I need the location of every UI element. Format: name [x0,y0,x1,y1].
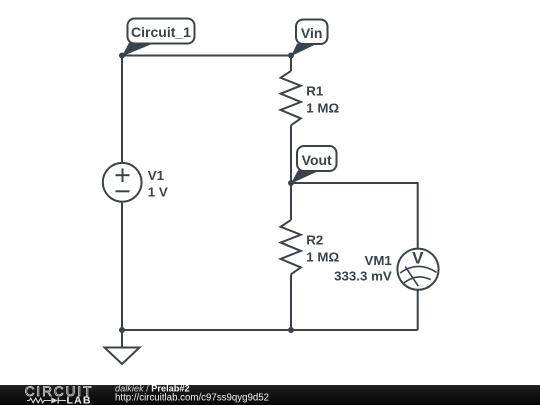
wire VM1 bottom to ground net [417,290,419,330]
svg-text:R2: R2 [306,233,323,248]
net flag box Vin [296,20,328,45]
net flag tail Vin [291,44,317,57]
wire top net Vin from Circuit_1 node to Vin node [122,55,291,57]
resistor R1 zigzag [281,71,301,125]
wire left branch lower (V1 bottom to ground net) [121,203,123,330]
svg-text:1 V: 1 V [148,185,168,200]
svg-text:Circuit_1: Circuit_1 [131,24,191,40]
svg-text:VM1: VM1 [364,253,392,268]
svg-text:V1: V1 [148,168,165,183]
voltage source V1 circle [103,163,142,202]
wire right branch upper (Vin node to R1) [290,56,292,71]
ground symbol stem [121,330,123,348]
svg-text:V: V [412,249,424,268]
net flag box Circuit_1 [128,19,195,44]
wire R1 bottom to Vout node [290,125,292,183]
CircuitLab logo squiggle resistor [27,398,51,403]
net flag tail Circuit_1 [122,43,155,57]
svg-text:Vin: Vin [301,25,323,41]
svg-text:333.3 mV: 333.3 mV [334,269,392,284]
footer bar [0,385,540,405]
svg-text:http://circuitlab.com/c97ss9qy: http://circuitlab.com/c97ss9qyg9d52 [115,392,269,403]
VM1 meter scale lower arc [404,277,431,283]
wire Vout node to R2 top [290,183,292,220]
svg-text:1 MΩ: 1 MΩ [306,100,339,115]
net flag box Vout [297,146,337,171]
junction node dot bottom left [119,327,125,333]
wire Vout horizontal to voltmeter branch [291,183,418,248]
svg-text:1 MΩ: 1 MΩ [306,249,339,264]
wire bottom ground net [122,329,418,331]
junction node dot Circuit_1 [119,53,125,59]
ground symbol triangle [105,348,140,365]
junction node dot Vin [288,53,294,59]
resistor R2 zigzag [281,220,301,274]
VM1 needle [405,267,418,287]
voltmeter VM1 circle [397,249,438,290]
V1 plus sign [116,174,130,176]
svg-text:LAB: LAB [67,395,92,405]
net flag tail Vout [291,170,320,183]
svg-text:R1: R1 [306,84,324,99]
junction node dot bottom center [288,327,294,333]
junction node dot Vout [288,180,294,186]
VM1 meter scale upper arc [400,266,437,273]
wire left branch upper (node to V1 top) [121,56,123,163]
V1 minus sign [116,190,130,192]
CircuitLab logo diode symbol [51,397,58,403]
svg-text:Vout: Vout [302,152,332,168]
wire R2 bottom to ground net [290,274,292,330]
